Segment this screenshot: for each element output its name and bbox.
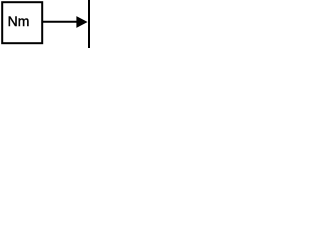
arrowhead bbox=[77, 17, 86, 27]
block Nm bbox=[2, 2, 42, 43]
node A (destination block edge) bbox=[88, 0, 90, 48]
svg-text:Nm: Nm bbox=[8, 13, 30, 29]
wire bbox=[42, 21, 77, 23]
